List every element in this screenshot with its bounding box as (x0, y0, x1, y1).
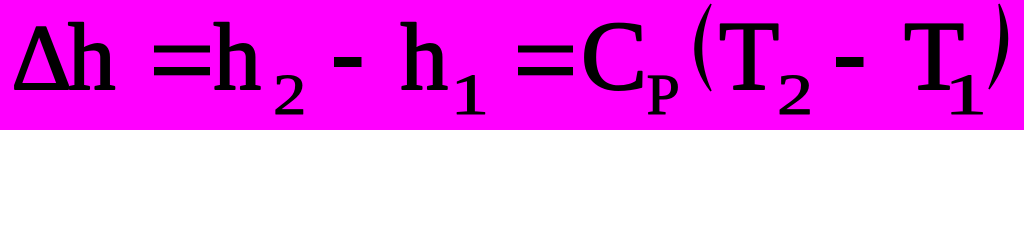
svg-text:Δ: Δ (12, 7, 72, 110)
equals sign 1 (154, 46, 210, 53)
svg-text:1: 1 (451, 62, 490, 127)
equals sign 2 (518, 46, 573, 53)
opening parenthesis (695, 4, 711, 91)
svg-text:2: 2 (777, 62, 813, 127)
closing parenthesis (989, 4, 1007, 89)
svg-text:P: P (647, 62, 680, 127)
svg-text:C: C (581, 2, 647, 111)
svg-text:h: h (401, 4, 449, 110)
svg-text:h: h (214, 4, 262, 110)
minus sign 1 (334, 57, 362, 67)
svg-text:h: h (68, 4, 116, 110)
svg-text:T: T (719, 2, 779, 111)
minus sign 2 (836, 57, 864, 67)
svg-text:2: 2 (273, 62, 306, 127)
svg-text:1: 1 (945, 62, 988, 127)
